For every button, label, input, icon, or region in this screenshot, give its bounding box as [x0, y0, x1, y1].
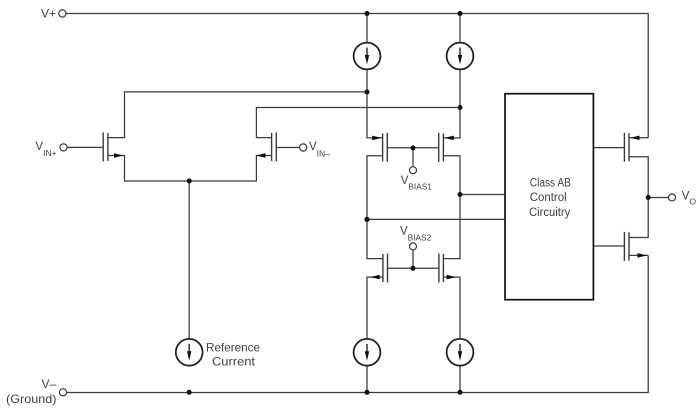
junction on V+ rail at x460 [458, 11, 463, 16]
transistor M1 (left input PMOS) [103, 132, 123, 161]
svg-text:V+: V+ [41, 6, 56, 20]
junction V- rail at x189 [187, 390, 192, 395]
junction on V+ rail at x367 [365, 11, 370, 16]
svg-text:VO: VO [682, 191, 697, 207]
wire rail x460 upper: V+ to CS2 [459, 14, 461, 43]
wire rail x460: CS2 to M4 source [443, 69, 460, 137]
svg-text:Current: Current [212, 355, 256, 369]
transistor M2 (right input PMOS) [256, 132, 276, 161]
junction V- rail at x367 [365, 390, 370, 395]
wire M7 drain to VO node [629, 157, 648, 198]
wire VBIAS2 gate bus [388, 250, 439, 268]
wire VIN+ to M1 gate [67, 146, 103, 148]
wire VO node to terminal [648, 197, 668, 199]
wire V+ rail [66, 14, 648, 138]
current source I3 (reference current) [176, 339, 203, 366]
svg-text:VBIAS2: VBIAS2 [400, 226, 432, 243]
terminal VO [669, 194, 676, 201]
svg-text:(Ground): (Ground) [6, 392, 57, 406]
wire box to M7 gate [593, 147, 624, 149]
current source I1 (top left) [354, 43, 381, 70]
svg-text:Control: Control [530, 192, 567, 204]
wire node A: M1 drain to rail x367 [108, 92, 367, 138]
transistor M5 (VBIAS2 cascode left) [370, 254, 387, 283]
current source I2 (top right) [447, 43, 474, 70]
transistor M4 (VBIAS1 cascode right) [439, 133, 454, 162]
wire M2 gate to VIN- [276, 147, 299, 149]
terminal VIN- [300, 144, 307, 151]
transistor M7 (output PMOS) [624, 133, 639, 162]
wire rail x460: M6 source to CS5 [443, 277, 460, 339]
terminal VBIAS2 [410, 243, 417, 250]
transistor M3 (VBIAS1 cascode left) [372, 133, 387, 162]
wire tail: input pair sources to reference current [108, 156, 272, 340]
transistor M6 (VBIAS2 cascode right) [439, 254, 456, 283]
svg-text:V–: V– [42, 377, 57, 391]
wire class AB input 1 [460, 194, 505, 196]
wire M8 source lead [629, 254, 648, 256]
svg-text:Circuitry: Circuitry [529, 207, 571, 219]
wire rail x367: M3 drain to M5 drain [367, 156, 383, 259]
junction V- rail at x460 [458, 390, 463, 395]
junction VBIAS1 gate [411, 145, 416, 150]
wire V- rail [67, 255, 649, 392]
junction VBIAS2 gate [411, 266, 416, 271]
svg-text:VIN+: VIN+ [35, 141, 56, 158]
junction tail node [187, 179, 192, 184]
wire rail x460 lower: CS5 to V- rail [459, 366, 461, 393]
current source I5 (bottom right) [447, 339, 474, 366]
junction class AB input 2 [364, 217, 369, 222]
wire class AB input 2 [367, 218, 505, 220]
junction VO node [646, 195, 651, 200]
terminal VIN+ [60, 144, 67, 151]
svg-text:VBIAS1: VBIAS1 [401, 175, 433, 191]
terminal V- [59, 389, 66, 396]
transistor M8 (output NMOS) [624, 232, 647, 261]
wire VBIAS1 gate bus [387, 148, 438, 167]
current source I4 (bottom left) [354, 339, 381, 366]
terminal VBIAS1 [410, 167, 417, 174]
junction node B [458, 105, 463, 110]
wire M7 source lead [629, 137, 648, 139]
wire rail x367 upper: V+ to CS1 [366, 14, 368, 43]
wire rail x367 lower: CS4 to V- rail [366, 366, 368, 393]
wire rail x367: CS1 to M3 source [367, 69, 383, 137]
junction class AB input 1 [458, 192, 463, 197]
block U1 class AB control box [505, 94, 593, 300]
wire node B: M2 drain to rail x460 [256, 108, 460, 138]
wire box to M8 gate [593, 245, 624, 247]
svg-text:VIN–: VIN– [309, 141, 330, 158]
junction node A [365, 90, 370, 95]
terminal V+ [59, 10, 66, 17]
wire M8 drain to VO node [629, 198, 648, 238]
svg-text:Class AB: Class AB [530, 178, 571, 190]
svg-text:Reference: Reference [206, 340, 260, 354]
wire rail x460: M4 drain to M6 drain [443, 156, 460, 259]
wire rail x367: M5 source to CS4 [367, 277, 383, 339]
